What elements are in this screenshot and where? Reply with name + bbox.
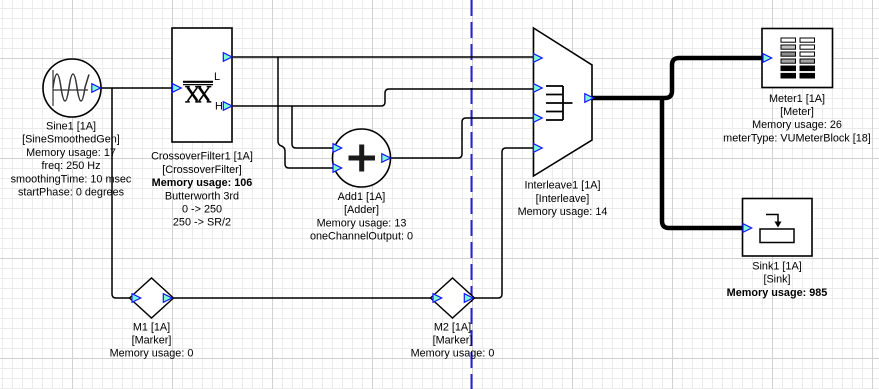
svg-text:Memory usage: 17: Memory usage: 17: [26, 147, 116, 159]
svg-text:[Marker]: [Marker]: [132, 335, 172, 347]
adder Add1: [333, 129, 391, 187]
label Sink1: [727, 261, 828, 299]
svg-text:L: L: [214, 71, 220, 83]
input port of Meter1: [763, 54, 772, 63]
input port of M2: [433, 294, 442, 303]
output port of Add1: [382, 154, 391, 163]
filter block CrossoverFilter1: [172, 28, 232, 142]
wire Add1 out to Interleave1 in3: [391, 118, 534, 158]
output port of M2: [464, 294, 473, 303]
svg-text:Butterworth 3rd: Butterworth 3rd: [165, 190, 239, 202]
svg-text:Interleave1 [1A]: Interleave1 [1A]: [525, 180, 601, 192]
svg-text:[Adder]: [Adder]: [344, 204, 379, 216]
svg-text:H: H: [215, 101, 223, 113]
wire branch junction at x=112 down to M1 in: [112, 88, 130, 298]
label M1: [110, 321, 194, 359]
output port of Interleave1: [585, 94, 594, 103]
wire CrossoverFilter1 L out to Interleave1 in1: [232, 56, 534, 58]
svg-text:Add1 [1A]: Add1 [1A]: [338, 191, 386, 203]
wire branch from H wire down to Add1 upper in: [292, 106, 333, 148]
wire M1 out to M2 in: [173, 297, 431, 299]
label Add1: [310, 191, 413, 243]
partition boundary dashed line: [471, 0, 473, 389]
input port 2 of Interleave1: [534, 84, 543, 93]
sink block Sink1: [743, 199, 813, 257]
output port of M1: [163, 294, 172, 303]
input port 1 of Interleave1: [534, 54, 543, 63]
label Sine1: [11, 121, 132, 199]
wire M2 out up to Interleave1 in4: [474, 148, 534, 298]
wire CrossoverFilter1 H out to Interleave1 in2: [232, 89, 534, 106]
svg-text:startPhase: 0 degrees: startPhase: 0 degrees: [18, 187, 125, 199]
svg-text:oneChannelOutput: 0: oneChannelOutput: 0: [310, 231, 413, 243]
input port 1 of Add1: [333, 144, 342, 153]
input port 4 of Interleave1: [534, 144, 543, 153]
svg-text:[CrossoverFilter]: [CrossoverFilter]: [162, 164, 242, 176]
svg-text:[Marker]: [Marker]: [433, 335, 473, 347]
svg-text:freq: 250 Hz: freq: 250 Hz: [41, 160, 100, 172]
output port of Sine1: [92, 84, 101, 93]
label Interleave1: [518, 180, 608, 218]
label CrossoverFilter1: [151, 151, 253, 229]
wire branch from L wire down to Add1 lower in: [278, 57, 333, 168]
label Meter1: [723, 93, 871, 145]
svg-text:meterType: VUMeterBlock [18]: meterType: VUMeterBlock [18]: [723, 132, 871, 144]
input port of CrossoverFilter1: [173, 84, 182, 93]
input port of M1: [132, 294, 141, 303]
svg-text:[Sink]: [Sink]: [763, 274, 790, 286]
svg-text:Memory usage: 13: Memory usage: 13: [317, 217, 407, 229]
svg-text:[Meter]: [Meter]: [780, 106, 814, 118]
input port 2 of Add1: [333, 164, 342, 173]
sine generator Sine1: [43, 59, 101, 117]
svg-text:Memory usage: 26: Memory usage: 26: [752, 119, 842, 131]
svg-text:[Interleave]: [Interleave]: [536, 193, 590, 205]
meter block Meter1: [762, 29, 833, 88]
svg-text:Memory usage: 0: Memory usage: 0: [411, 348, 495, 360]
svg-text:M2 [1A]: M2 [1A]: [434, 321, 471, 333]
svg-text:Memory usage: 0: Memory usage: 0: [110, 348, 194, 360]
marker M2: [431, 278, 475, 318]
interleave block Interleave1: [534, 28, 593, 176]
svg-text:0 -> 250: 0 -> 250: [182, 204, 222, 216]
svg-text:Meter1 [1A]: Meter1 [1A]: [769, 93, 825, 105]
svg-text:Sink1 [1A]: Sink1 [1A]: [752, 261, 801, 273]
svg-text:CrossoverFilter1 [1A]: CrossoverFilter1 [1A]: [151, 151, 253, 163]
svg-text:[SineSmoothedGen]: [SineSmoothedGen]: [22, 134, 120, 146]
svg-text:smoothingTime: 10 msec: smoothingTime: 10 msec: [11, 173, 132, 185]
output port H of CrossoverFilter1: [223, 102, 232, 111]
svg-text:Sine1 [1A]: Sine1 [1A]: [46, 121, 96, 133]
wire Sine1 out to CrossoverFilter1 in: [100, 87, 172, 89]
output port L of CrossoverFilter1: [223, 53, 232, 62]
svg-text:250 -> SR/2: 250 -> SR/2: [173, 217, 231, 229]
svg-text:Memory usage: 106: Memory usage: 106: [152, 177, 253, 189]
svg-text:Memory usage: 14: Memory usage: 14: [518, 206, 608, 218]
svg-text:Memory usage: 985: Memory usage: 985: [727, 287, 828, 299]
input port 3 of Interleave1: [534, 114, 543, 123]
svg-text:M1 [1A]: M1 [1A]: [133, 321, 170, 333]
label M2: [411, 321, 495, 359]
thick wire Interleave1 out to Meter1 in: [591, 58, 762, 98]
thick wire branch down to Sink1 in: [662, 98, 742, 228]
input port of Sink1: [743, 224, 752, 233]
marker M1: [130, 278, 174, 318]
